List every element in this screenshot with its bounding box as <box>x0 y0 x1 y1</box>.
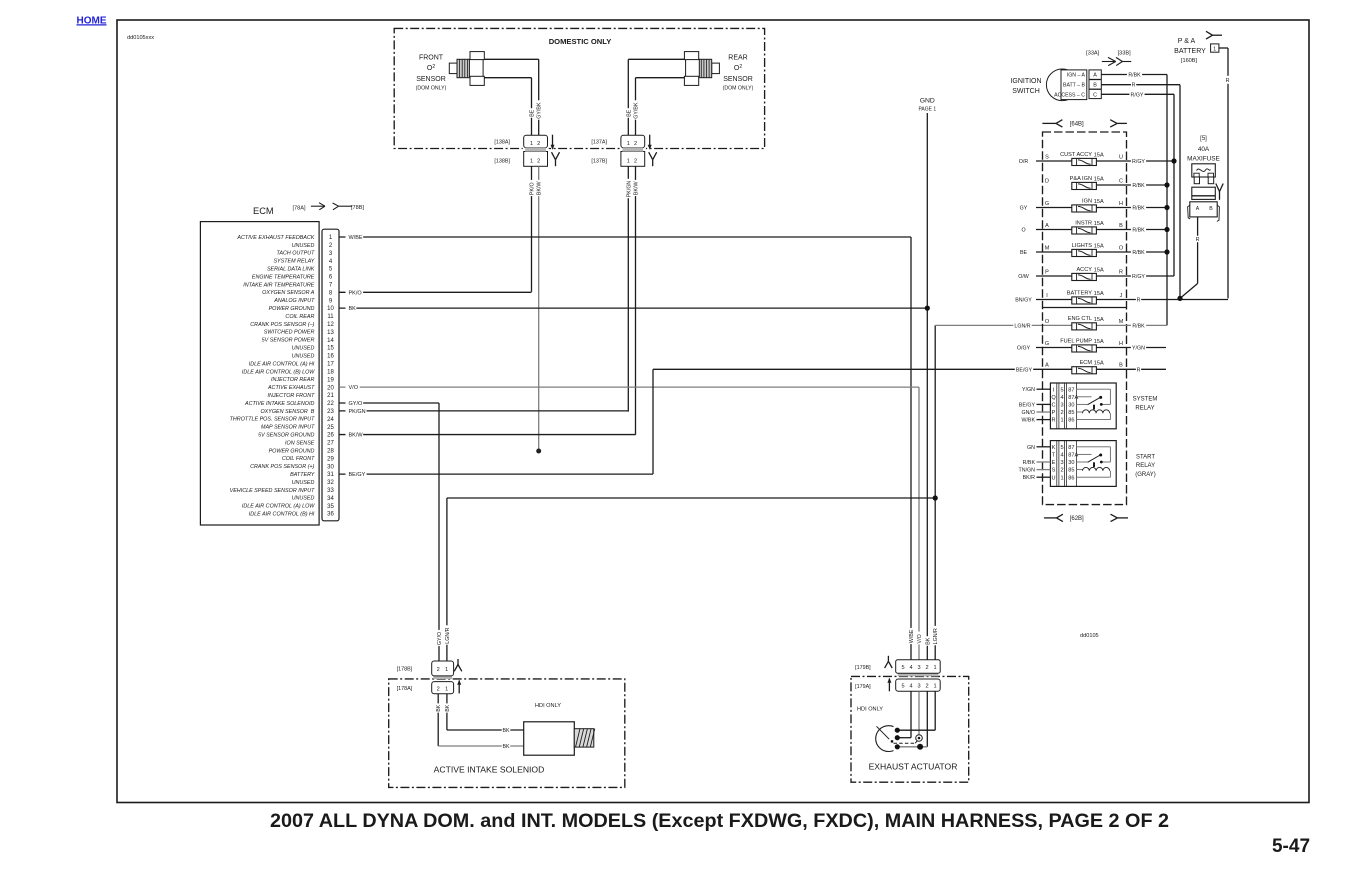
svg-text:ACTIVE INTAKE SOLENOID: ACTIVE INTAKE SOLENOID <box>244 401 315 407</box>
svg-text:BK/W: BK/W <box>349 433 364 439</box>
svg-text:RELAY: RELAY <box>1136 463 1155 469</box>
HOME link <box>77 16 107 27</box>
svg-text:THROTTLE POS. SENSOR INPUT: THROTTLE POS. SENSOR INPUT <box>230 417 315 423</box>
ECM box <box>200 222 319 525</box>
svg-text:[64B]: [64B] <box>1070 122 1084 128</box>
svg-text:GY/BK: GY/BK <box>634 102 640 119</box>
svg-text:R: R <box>1132 83 1136 89</box>
svg-text:H: H <box>1119 201 1123 207</box>
svg-text:GY: GY <box>1020 206 1028 212</box>
wire V/O to motor <box>918 691 920 734</box>
svg-text:BATTERY: BATTERY <box>1174 48 1206 55</box>
svg-text:24: 24 <box>327 417 334 423</box>
label dd0105 <box>1080 633 1099 639</box>
svg-text:IDLE AIR CONTROL (B) LOW: IDLE AIR CONTROL (B) LOW <box>242 369 315 375</box>
wire PK/GN vertical <box>625 166 632 411</box>
connector [138A]/[138B] <box>494 135 559 168</box>
svg-text:S: S <box>1052 468 1056 474</box>
svg-text:BE: BE <box>626 109 632 117</box>
svg-text:85: 85 <box>1068 410 1074 416</box>
svg-text:OXYGEN SENSOR B: OXYGEN SENSOR B <box>260 409 314 415</box>
svg-text:12: 12 <box>327 322 334 328</box>
svg-text:W/BE: W/BE <box>909 629 915 643</box>
svg-text:21: 21 <box>327 393 334 399</box>
system relay <box>1019 383 1158 429</box>
svg-text:BK/R: BK/R <box>1023 475 1036 481</box>
fuse FUEL PUMP 15A <box>1016 338 1166 352</box>
svg-text:U: U <box>1119 154 1123 160</box>
wire BK sol pin2 <box>435 694 524 750</box>
svg-text:E: E <box>1052 460 1056 466</box>
svg-text:FUEL PUMP: FUEL PUMP <box>1060 338 1092 344</box>
wire BK/W front vertical <box>535 166 542 453</box>
svg-text:A: A <box>1093 73 1097 79</box>
GND label <box>918 98 936 113</box>
svg-text:[78A]: [78A] <box>292 206 306 212</box>
svg-text:POWER GROUND: POWER GROUND <box>269 448 315 454</box>
wire BE/GY pin31 <box>339 471 653 478</box>
ignition switch body <box>1046 69 1086 101</box>
svg-text:CRANK POS SENSOR (–): CRANK POS SENSOR (–) <box>250 322 314 328</box>
svg-text:START: START <box>1136 454 1155 460</box>
P&A battery label <box>1174 38 1206 64</box>
svg-text:ION SENSE: ION SENSE <box>285 440 315 446</box>
svg-text:BK: BK <box>349 306 357 312</box>
connector [78A] arrow [78B] <box>292 203 364 212</box>
svg-text:BK: BK <box>502 728 510 734</box>
svg-text:3: 3 <box>1060 460 1063 466</box>
junction BK motor <box>917 744 923 750</box>
svg-text:GY/O: GY/O <box>349 401 363 407</box>
svg-text:GY/O: GY/O <box>437 632 443 645</box>
svg-text:2: 2 <box>634 141 637 147</box>
svg-text:ENGINE TEMPERATURE: ENGINE TEMPERATURE <box>252 274 315 280</box>
svg-text:R/GY: R/GY <box>1131 92 1144 98</box>
svg-text:2: 2 <box>925 684 928 690</box>
svg-text:[33A]: [33A] <box>1086 50 1100 56</box>
svg-text:BK/W: BK/W <box>634 182 640 196</box>
svg-text:1: 1 <box>530 141 533 147</box>
svg-text:34: 34 <box>327 496 334 502</box>
svg-text:1: 1 <box>530 159 533 165</box>
svg-text:LGN/R: LGN/R <box>445 627 451 643</box>
svg-text:16: 16 <box>327 354 334 360</box>
domestic-only enclosure <box>394 28 764 148</box>
svg-text:SERIAL DATA LINK: SERIAL DATA LINK <box>267 267 315 273</box>
svg-text:1: 1 <box>445 686 448 692</box>
svg-text:1: 1 <box>445 667 448 673</box>
wire BK pin10 <box>339 305 927 312</box>
svg-text:CRANK POS SENSOR (+): CRANK POS SENSOR (+) <box>250 464 314 470</box>
svg-text:5: 5 <box>901 684 904 690</box>
svg-text:15A: 15A <box>1094 361 1104 367</box>
svg-text:GN/O: GN/O <box>1021 410 1035 416</box>
ECM pin labels <box>230 235 335 518</box>
svg-text:30: 30 <box>1068 460 1074 466</box>
svg-text:J: J <box>1120 293 1123 299</box>
svg-text:BATTERY: BATTERY <box>1067 290 1093 296</box>
svg-text:B: B <box>1093 83 1097 89</box>
wire R/GY ign C <box>1101 91 1174 276</box>
svg-text:REAR: REAR <box>728 55 747 62</box>
junction R battery row <box>1177 296 1182 301</box>
svg-text:R/BK: R/BK <box>1132 250 1145 256</box>
svg-text:O/GY: O/GY <box>1017 346 1031 352</box>
svg-text:ACCESS – C: ACCESS – C <box>1054 92 1085 98</box>
svg-text:BE: BE <box>1020 250 1028 256</box>
svg-text:T: T <box>1052 453 1056 459</box>
wire BK to motor <box>897 691 927 747</box>
svg-text:(GRAY): (GRAY) <box>1135 472 1156 478</box>
svg-text:ACTIVE EXHAUST: ACTIVE EXHAUST <box>267 385 315 391</box>
wire R battery <box>1219 48 1232 298</box>
svg-text:BK: BK <box>445 704 451 711</box>
svg-text:O: O <box>1119 245 1124 251</box>
title <box>270 810 1169 832</box>
connector [179B]/[179A] <box>855 656 940 692</box>
svg-text:UNUSED: UNUSED <box>292 353 315 359</box>
fuse IGN 15A <box>1019 198 1167 212</box>
svg-text:2: 2 <box>537 141 540 147</box>
svg-text:3: 3 <box>1060 403 1063 409</box>
svg-text:17: 17 <box>327 362 334 368</box>
svg-text:GY/BK: GY/BK <box>537 102 543 119</box>
svg-text:EXHAUST ACTUATOR: EXHAUST ACTUATOR <box>869 762 958 772</box>
svg-text:ECM: ECM <box>253 206 274 216</box>
wiper pot contact <box>916 735 923 742</box>
svg-text:5V SENSOR POWER: 5V SENSOR POWER <box>262 338 315 344</box>
svg-text:15: 15 <box>327 346 334 352</box>
svg-text:P: P <box>1045 269 1049 275</box>
svg-text:5: 5 <box>1060 445 1063 451</box>
svg-text:C: C <box>1051 403 1055 409</box>
svg-text:25: 25 <box>327 425 334 431</box>
border frame <box>117 20 1309 803</box>
rear O2 sensor label <box>723 55 754 92</box>
wire BE front <box>484 78 535 136</box>
svg-text:PK/O: PK/O <box>349 290 363 296</box>
svg-text:M: M <box>1045 245 1050 251</box>
junction R/GY row1 <box>1171 158 1176 163</box>
svg-text:SWITCHED POWER: SWITCHED POWER <box>264 330 315 336</box>
active intake solenoid enclosure <box>389 679 625 788</box>
svg-text:UNUSED: UNUSED <box>292 243 315 249</box>
svg-text:[178B]: [178B] <box>397 666 413 672</box>
svg-text:[178A]: [178A] <box>397 686 413 692</box>
svg-text:OXYGEN SENSOR A: OXYGEN SENSOR A <box>262 290 315 296</box>
svg-text:Q: Q <box>1051 395 1056 401</box>
svg-text:[138A]: [138A] <box>494 140 510 146</box>
svg-text:P: P <box>1052 410 1056 416</box>
intake solenoid body <box>524 722 595 755</box>
wire PK/O pin8 <box>339 289 532 296</box>
wire W/BE pin1 <box>339 234 911 241</box>
svg-text:[62B]: [62B] <box>1070 516 1084 522</box>
svg-text:2: 2 <box>537 159 540 165</box>
svg-text:15A: 15A <box>1094 152 1104 158</box>
svg-text:2: 2 <box>437 667 440 673</box>
fuse CUST ACCY 15A <box>1018 152 1174 166</box>
svg-text:IGN: IGN <box>1082 198 1092 204</box>
svg-text:PK/GN: PK/GN <box>626 181 632 198</box>
svg-text:PK/O: PK/O <box>530 182 536 195</box>
svg-text:O: O <box>1045 319 1050 325</box>
svg-text:87A: 87A <box>1068 453 1078 459</box>
fuse ACCY 15A <box>1018 267 1174 281</box>
svg-text:dd0105: dd0105 <box>1080 633 1099 639</box>
svg-text:A: A <box>1045 363 1049 369</box>
rear O2 sensor <box>684 52 719 86</box>
svg-text:R/BK: R/BK <box>1023 460 1036 466</box>
connector labels [33A] [33B] <box>1086 50 1131 56</box>
label dd0105xxx <box>127 35 154 41</box>
svg-text:18: 18 <box>327 369 334 375</box>
svg-text:MAP SENSOR INPUT: MAP SENSOR INPUT <box>261 425 315 431</box>
exhaust actuator enclosure <box>851 676 969 782</box>
svg-text:SYSTEM RELAY: SYSTEM RELAY <box>273 259 314 265</box>
svg-text:31: 31 <box>327 472 334 478</box>
svg-text:K: K <box>1052 445 1056 451</box>
svg-text:V/O: V/O <box>917 634 923 643</box>
svg-text:B: B <box>1209 206 1213 212</box>
connector [33B] block <box>1089 70 1101 99</box>
svg-text:HDI ONLY: HDI ONLY <box>857 707 883 713</box>
svg-text:O/R: O/R <box>1019 159 1029 165</box>
svg-text:30: 30 <box>1068 403 1074 409</box>
wire R/BK ign A <box>1101 71 1167 325</box>
wire PK/O vertical <box>528 166 535 291</box>
svg-text:BK: BK <box>436 704 442 711</box>
domestic-only label <box>549 37 612 46</box>
svg-text:15A: 15A <box>1094 199 1104 205</box>
svg-text:[33B]: [33B] <box>1118 50 1132 56</box>
svg-text:O/W: O/W <box>1018 274 1029 280</box>
svg-text:1: 1 <box>1060 418 1063 424</box>
svg-text:[137B]: [137B] <box>591 159 607 165</box>
svg-text:BK: BK <box>502 744 510 750</box>
svg-text:VEHICLE SPEED SENSOR INPUT: VEHICLE SPEED SENSOR INPUT <box>230 488 315 494</box>
svg-text:29: 29 <box>327 456 334 462</box>
mating arrow 33 <box>1102 57 1131 65</box>
svg-text:4: 4 <box>909 684 912 690</box>
svg-text:BE/GY: BE/GY <box>1016 367 1033 373</box>
wire LGN/R to motor <box>897 691 935 730</box>
svg-text:4: 4 <box>1060 453 1063 459</box>
front O2 sensor <box>449 52 484 86</box>
svg-text:D: D <box>1045 178 1049 184</box>
svg-text:ENG CTL: ENG CTL <box>1068 316 1092 322</box>
svg-text:A: A <box>1196 206 1200 212</box>
svg-text:1: 1 <box>1060 475 1063 481</box>
page number 5-47 <box>1272 836 1310 857</box>
svg-text:3: 3 <box>917 665 920 671</box>
svg-text:PAGE 1: PAGE 1 <box>918 107 936 113</box>
svg-text:G: G <box>1045 201 1049 207</box>
wire R ign B <box>1101 82 1180 299</box>
svg-text:BATTERY: BATTERY <box>290 472 315 478</box>
wire LGN/R branch <box>444 498 936 661</box>
svg-text:POWER GROUND: POWER GROUND <box>269 306 315 312</box>
svg-text:TACH OUTPUT: TACH OUTPUT <box>276 251 315 257</box>
connector [178B]/[178A] <box>397 659 462 694</box>
wire V/O vertical <box>916 387 923 660</box>
svg-text:28: 28 <box>327 448 334 454</box>
svg-text:SENSOR: SENSOR <box>416 76 446 83</box>
svg-text:4: 4 <box>909 665 912 671</box>
svg-text:2: 2 <box>1060 468 1063 474</box>
svg-text:30: 30 <box>327 464 334 470</box>
svg-text:Y/GN: Y/GN <box>1022 387 1035 393</box>
svg-text:1: 1 <box>1213 46 1216 52</box>
fuse INSTR 15A <box>1021 220 1167 234</box>
wire BE/GY riser <box>653 366 1072 474</box>
svg-text:R/BK: R/BK <box>1128 73 1141 79</box>
svg-text:4: 4 <box>1060 395 1063 401</box>
wire GY/BK rear <box>632 78 684 136</box>
svg-text:3: 3 <box>917 684 920 690</box>
svg-text:35: 35 <box>327 504 334 510</box>
svg-text:86: 86 <box>1068 418 1074 424</box>
svg-text:INSTR: INSTR <box>1075 220 1092 226</box>
svg-text:[137A]: [137A] <box>591 140 607 146</box>
svg-text:36: 36 <box>327 512 334 518</box>
svg-text:INTAKE AIR TEMPERATURE: INTAKE AIR TEMPERATURE <box>243 282 315 288</box>
svg-text:IGNITION: IGNITION <box>1010 78 1041 85</box>
wire PK/GN pin23 <box>339 408 628 415</box>
svg-text:[138B]: [138B] <box>494 159 510 165</box>
svg-text:R/GY: R/GY <box>1132 159 1145 165</box>
svg-text:LGN/R: LGN/R <box>933 628 939 644</box>
svg-text:15A: 15A <box>1094 243 1104 249</box>
svg-text:26: 26 <box>327 433 334 439</box>
svg-text:IDLE AIR CONTROL (B) HI: IDLE AIR CONTROL (B) HI <box>249 512 315 518</box>
svg-text:GND: GND <box>920 98 935 105</box>
svg-text:R: R <box>1226 78 1230 84</box>
svg-text:COIL FRONT: COIL FRONT <box>282 456 315 462</box>
svg-text:15A: 15A <box>1094 221 1104 227</box>
motor contacts <box>895 728 900 750</box>
wire W/BE to motor <box>897 691 911 737</box>
svg-text:H: H <box>1119 341 1123 347</box>
svg-text:15A: 15A <box>1094 317 1104 323</box>
svg-text:2007 ALL DYNA DOM. and INT. MO: 2007 ALL DYNA DOM. and INT. MODELS (Exce… <box>270 810 1169 832</box>
svg-text:CUST ACCY: CUST ACCY <box>1060 152 1092 158</box>
svg-text:20: 20 <box>327 385 334 391</box>
start relay <box>1019 441 1156 487</box>
svg-text:87: 87 <box>1068 387 1074 393</box>
svg-text:C: C <box>1093 92 1097 98</box>
svg-text:MAXIFUSE: MAXIFUSE <box>1187 156 1220 163</box>
svg-text:M: M <box>1119 319 1124 325</box>
svg-text:15A: 15A <box>1094 339 1104 345</box>
svg-text:dd0105xxx: dd0105xxx <box>127 35 154 41</box>
svg-text:(DOM ONLY): (DOM ONLY) <box>723 86 754 92</box>
svg-text:A: A <box>1045 223 1049 229</box>
junction BK-GND <box>925 306 930 311</box>
battery mating fork <box>1206 31 1222 39</box>
svg-text:UNUSED: UNUSED <box>292 496 315 502</box>
svg-text:R/BK: R/BK <box>1132 323 1145 329</box>
fuse BATTERY 15A <box>1014 290 1228 304</box>
svg-text:P&A IGN: P&A IGN <box>1070 176 1092 182</box>
fuse P&A IGN 15A <box>1045 176 1167 190</box>
svg-text:BE/GY: BE/GY <box>349 472 366 478</box>
ECM label <box>253 206 274 216</box>
svg-text:G: G <box>1045 341 1049 347</box>
svg-text:RELAY: RELAY <box>1135 406 1154 412</box>
svg-text:U: U <box>1051 475 1055 481</box>
svg-text:5: 5 <box>1060 387 1063 393</box>
svg-text:86: 86 <box>1068 475 1074 481</box>
svg-text:PK/GN: PK/GN <box>349 409 366 415</box>
svg-text:15A: 15A <box>1094 291 1104 297</box>
svg-text:LGN/R: LGN/R <box>1014 323 1030 329</box>
maxifuse mating fork <box>1216 184 1223 200</box>
svg-text:27: 27 <box>327 441 334 447</box>
fuse ECM 15A <box>1045 360 1166 374</box>
connector [62B] footer <box>1044 513 1128 522</box>
wire W/BE vertical <box>908 237 915 660</box>
wire GY/BK front <box>484 59 542 135</box>
fuse panel divider <box>1043 307 1127 309</box>
wire BE rear <box>625 59 685 135</box>
wire BK/W rear vertical <box>632 166 639 435</box>
svg-text:5-47: 5-47 <box>1272 836 1310 857</box>
svg-text:R/BK: R/BK <box>1132 206 1145 212</box>
40A maxifuse <box>1187 136 1220 221</box>
svg-text:SYSTEM: SYSTEM <box>1133 397 1158 403</box>
svg-text:BE: BE <box>530 109 536 117</box>
wire GY/O vertical <box>436 403 443 661</box>
connector [64B] header <box>1042 118 1127 127</box>
svg-text:ACCY: ACCY <box>1076 267 1092 273</box>
svg-text:15A: 15A <box>1094 176 1104 182</box>
svg-text:UNUSED: UNUSED <box>292 346 315 352</box>
svg-text:R/GY: R/GY <box>1132 274 1145 280</box>
wire BK/W pin26 <box>339 431 636 438</box>
wire V/O pin20 <box>339 384 919 391</box>
svg-text:2: 2 <box>437 686 440 692</box>
svg-text:19: 19 <box>327 377 334 383</box>
svg-text:(DOM ONLY): (DOM ONLY) <box>416 86 447 92</box>
svg-text:P & A: P & A <box>1178 38 1196 45</box>
svg-text:2: 2 <box>634 159 637 165</box>
svg-text:BATT – B: BATT – B <box>1063 83 1086 89</box>
junction R/BK row3 <box>1164 205 1169 210</box>
svg-text:SWITCH: SWITCH <box>1012 88 1040 95</box>
connector [137A]/[137B] <box>591 135 656 168</box>
front O2 sensor label <box>416 55 447 92</box>
svg-text:ACTIVE EXHAUST FEEDBACK: ACTIVE EXHAUST FEEDBACK <box>236 235 314 241</box>
svg-text:32: 32 <box>327 480 334 486</box>
svg-text:13: 13 <box>327 330 334 336</box>
svg-text:ANALOG INPUT: ANALOG INPUT <box>273 298 315 304</box>
svg-text:14: 14 <box>327 338 334 344</box>
svg-text:10: 10 <box>327 306 334 312</box>
svg-text:DOMESTIC ONLY: DOMESTIC ONLY <box>549 37 612 46</box>
svg-text:COIL REAR: COIL REAR <box>285 314 314 320</box>
svg-text:HDI ONLY: HDI ONLY <box>535 703 561 709</box>
svg-text:87A: 87A <box>1068 395 1078 401</box>
svg-text:5V SENSOR GROUND: 5V SENSOR GROUND <box>258 432 314 438</box>
svg-text:1: 1 <box>627 159 630 165</box>
svg-text:1: 1 <box>627 141 630 147</box>
svg-text:R: R <box>1051 418 1055 424</box>
svg-text:87: 87 <box>1068 445 1074 451</box>
wire BK sol pin1 <box>444 694 524 734</box>
ignition switch label <box>1010 78 1041 95</box>
svg-text:[78B]: [78B] <box>351 205 365 211</box>
